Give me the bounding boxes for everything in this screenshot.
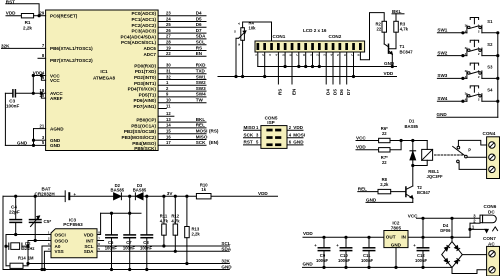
wire OSCI down to crystal xyxy=(5,235,7,266)
wire pin9 / node SW4 xyxy=(158,92,206,97)
IC3 PCF8563 xyxy=(48,217,100,257)
svg-text:PB7(XTAL2/TOSC2): PB7(XTAL2/TOSC2) xyxy=(50,58,93,63)
node SW1 / wire to S1 xyxy=(437,28,467,34)
svg-text:VDD: VDD xyxy=(384,71,394,76)
svg-text:1k: 1k xyxy=(201,187,206,192)
diode D3 BAS85 xyxy=(133,183,147,200)
svg-text:23: 23 xyxy=(166,11,171,16)
resistor R8 xyxy=(378,177,391,194)
svg-text:4,7k: 4,7k xyxy=(400,27,409,32)
wire GND pin3 row xyxy=(34,139,46,141)
wire IC3 INT stub xyxy=(97,240,104,242)
wire OSCO row xyxy=(27,241,29,266)
wire AGND down to GND pins xyxy=(33,129,35,146)
svg-text:BAS85: BAS85 xyxy=(405,124,419,129)
wire pot top to LCD pin3 xyxy=(243,22,272,41)
wire AVCC to AREF bridge xyxy=(41,93,45,98)
wire CON6 pin1 with center-pin arrow xyxy=(470,228,487,230)
IC1 ATMEGA8 body xyxy=(46,10,159,151)
wire AVCC row xyxy=(15,92,45,94)
wire R1 to pin29 xyxy=(34,15,46,17)
capacitor C4 xyxy=(9,195,22,236)
wire pin16 / node MISO xyxy=(158,134,208,139)
wire pin11 xyxy=(158,103,171,108)
wire coil bottom to D1 xyxy=(413,160,427,165)
connector CON7 AC xyxy=(483,236,500,276)
svg-text:EN: EN xyxy=(196,51,203,56)
wire pot wiper down xyxy=(236,38,239,76)
svg-text:C5*: C5* xyxy=(44,219,52,224)
wire CON4 t3 to contact xyxy=(459,163,487,170)
svg-text:GND: GND xyxy=(303,261,314,266)
wire LCD gnd rail xyxy=(258,66,397,68)
wire pin12 xyxy=(158,111,174,116)
wire T2 emitter to gnd xyxy=(412,198,414,202)
wire left rail xyxy=(4,93,6,145)
svg-text:OSCO: OSCO xyxy=(55,238,69,243)
wire LCD pin5 to gnd xyxy=(284,52,286,67)
svg-text:OUT: OUT xyxy=(386,235,396,240)
svg-text:21: 21 xyxy=(40,123,45,128)
wire pin28 / node SCL xyxy=(158,40,206,45)
node BKL xyxy=(392,9,404,14)
wire LCD vdd rail xyxy=(218,76,397,78)
svg-text:SCL: SCL xyxy=(221,241,230,246)
svg-text:100nF: 100nF xyxy=(361,258,374,263)
wire CON4 t1 to contact xyxy=(458,140,486,146)
node VDD / wire vdd rail bottom xyxy=(303,231,384,238)
wire LCD pin10 to gnd xyxy=(318,52,320,67)
svg-text:PB6(XTAL1/TOSC1): PB6(XTAL1/TOSC1) xyxy=(50,46,93,51)
wire switches gnd rail xyxy=(497,33,499,118)
svg-text:12: 12 xyxy=(166,111,171,116)
resistor R6* xyxy=(379,126,390,143)
svg-text:2,2k: 2,2k xyxy=(380,182,389,187)
resistor R1 xyxy=(21,14,33,31)
svg-text:100nF: 100nF xyxy=(6,104,19,109)
battery BAT CR2032H xyxy=(3,187,77,202)
svg-text:PD4(T0/XCK): PD4(T0/XCK) xyxy=(128,87,157,92)
svg-text:GND: GND xyxy=(293,140,304,145)
svg-text:LCD 2 x 16: LCD 2 x 16 xyxy=(303,28,327,33)
wire pin10 / node TW xyxy=(158,98,206,103)
svg-text:VDD: VDD xyxy=(6,11,16,16)
svg-text:ISP: ISP xyxy=(267,120,274,125)
svg-text:REL: REL xyxy=(196,123,205,128)
svg-text:VDD: VDD xyxy=(293,125,303,130)
svg-text:15: 15 xyxy=(166,129,171,134)
svg-text:30: 30 xyxy=(166,63,171,68)
wire pin14 / node REL xyxy=(158,123,206,128)
wire A0 to gnd xyxy=(42,246,51,270)
svg-text:(RS): (RS) xyxy=(209,129,219,134)
wire bridge to CON7 t1 xyxy=(462,254,486,256)
capacitor C9 xyxy=(314,237,329,268)
svg-text:VCC: VCC xyxy=(408,214,418,219)
svg-text:CON7: CON7 xyxy=(483,236,496,241)
wire jack switch lever xyxy=(493,227,498,231)
svg-text:R14: R14 xyxy=(18,255,26,260)
pin numbers CON1 1-8 rotated xyxy=(254,54,361,56)
wire pin19 / node RS xyxy=(158,45,206,50)
svg-text:SW1: SW1 xyxy=(437,28,447,33)
svg-text:S: S xyxy=(234,30,236,34)
capacitor C7 xyxy=(123,213,136,270)
wire CON4 t2 to pivot xyxy=(467,156,486,158)
svg-text:22: 22 xyxy=(382,160,387,165)
svg-text:PD3(INT1): PD3(INT1) xyxy=(134,81,156,86)
wire EN drop / node EN xyxy=(291,52,296,95)
wire pin4 to pin6 bridge xyxy=(41,76,45,81)
wire D6 drop / node D6 xyxy=(339,52,344,95)
transistor T2 BC847 xyxy=(406,185,431,198)
svg-text:VDD: VDD xyxy=(258,191,268,196)
wire C3 left to rail xyxy=(5,92,12,94)
svg-text:CON4: CON4 xyxy=(483,131,496,136)
svg-text:31: 31 xyxy=(166,69,171,74)
wire pin26 / node D7 xyxy=(158,28,206,33)
svg-text:3V: 3V xyxy=(167,191,174,196)
capacitor C6 xyxy=(105,213,118,270)
resistor R10 xyxy=(196,182,211,199)
wire gnd bottom xyxy=(437,116,498,118)
svg-text:PD7(AIN1): PD7(AIN1) xyxy=(134,104,157,109)
ground rail right / node GND xyxy=(303,261,453,267)
svg-text:MOSI: MOSI xyxy=(293,133,305,138)
svg-text:10k: 10k xyxy=(249,26,257,31)
svg-text:SCL: SCL xyxy=(84,244,93,249)
svg-text:19: 19 xyxy=(166,45,171,50)
svg-text:E: E xyxy=(237,43,241,45)
svg-text:PCF8563: PCF8563 xyxy=(63,222,83,227)
bridge rectifier D4 DF06 xyxy=(440,223,462,268)
node SW4 / wire to S4 xyxy=(437,96,467,102)
svg-text:25: 25 xyxy=(166,22,171,27)
node GND / pin 6 xyxy=(287,140,304,145)
node VCC / wire to R6 xyxy=(356,135,379,140)
diode D2 BAS85 xyxy=(111,183,125,200)
svg-text:DF06: DF06 xyxy=(440,228,451,233)
wire VDD to pin4 xyxy=(33,75,45,77)
wire left rail battery minus xyxy=(2,196,4,269)
svg-text:CON6: CON6 xyxy=(484,204,497,209)
wire LCD pin1 to gnd xyxy=(257,52,259,67)
ground rail left / node GND xyxy=(3,265,232,270)
wire pin13 / node BKL xyxy=(158,117,206,122)
svg-text:VCC: VCC xyxy=(50,78,60,83)
wire pin2 down to IN xyxy=(469,223,471,237)
svg-text:SDA: SDA xyxy=(221,246,231,251)
wire 3V node down xyxy=(129,196,131,213)
svg-text:GND: GND xyxy=(391,242,402,247)
svg-text:OSCI: OSCI xyxy=(55,232,66,237)
svg-text:REL: REL xyxy=(358,186,367,191)
svg-text:ADC6: ADC6 xyxy=(143,46,156,51)
wire pin8 stub xyxy=(38,57,46,59)
wire S3 to gnd rail xyxy=(482,77,498,79)
switch S4 xyxy=(465,86,493,102)
capacitor C8 xyxy=(140,196,153,270)
wire R6 to node xyxy=(390,140,427,142)
relay contact xyxy=(453,146,472,162)
wire SDA line / node SDA xyxy=(97,246,232,251)
svg-text:D5: D5 xyxy=(332,89,337,95)
svg-text:PB0(ICP): PB0(ICP) xyxy=(136,118,156,123)
svg-text:PC5(ADC5/SCL): PC5(ADC5/SCL) xyxy=(121,40,156,45)
svg-text:17: 17 xyxy=(166,140,171,145)
wire SCL line / node SCL xyxy=(97,241,231,246)
svg-text:PC0(ADC0): PC0(ADC0) xyxy=(131,11,156,16)
connector CON5 ISP xyxy=(261,116,287,149)
svg-text:SW3: SW3 xyxy=(196,86,206,91)
wire S1 to gnd rail xyxy=(482,32,498,34)
svg-text:S1: S1 xyxy=(487,19,493,24)
svg-text:MISO: MISO xyxy=(196,134,208,139)
svg-text:PB3(MOSI/OC2): PB3(MOSI/OC2) xyxy=(122,135,157,140)
wire R3 to T1 base xyxy=(389,32,397,49)
svg-text:SCL: SCL xyxy=(196,40,205,45)
wire T1 emitter to gnd rail xyxy=(391,54,393,66)
svg-text:AC: AC xyxy=(488,242,495,247)
wire D5 drop / node D5 xyxy=(332,52,337,95)
node SW2 / wire to S2 xyxy=(437,50,467,56)
svg-text:S3: S3 xyxy=(487,65,493,70)
svg-text:SDA: SDA xyxy=(84,249,94,254)
svg-text:IN: IN xyxy=(401,235,406,240)
svg-text:JQC3FF: JQC3FF xyxy=(427,174,443,179)
svg-text:22: 22 xyxy=(166,51,171,56)
svg-text:7805: 7805 xyxy=(391,225,402,230)
wire R8 to T2 base xyxy=(391,191,406,193)
svg-text:GND: GND xyxy=(221,265,232,270)
diode D1 BAS85 xyxy=(405,119,419,166)
connector CON1/CON2 strip xyxy=(255,41,365,52)
wire battery to D2 xyxy=(69,195,113,197)
wire LCD pin9 to gnd xyxy=(312,52,314,67)
wire R7 up to node xyxy=(390,141,401,150)
wire RS drop / node RS xyxy=(278,52,283,95)
svg-text:VSS: VSS xyxy=(55,249,64,254)
wire R10 to VDD / node VDD xyxy=(211,191,278,196)
wire VCC down to IN xyxy=(422,218,424,237)
crystal Q2 32kHz xyxy=(5,241,35,251)
svg-text:1M: 1M xyxy=(28,255,34,260)
svg-text:PD0(RXD): PD0(RXD) xyxy=(134,63,156,68)
svg-text:D5: D5 xyxy=(196,16,202,21)
wire pot bottom to VDD rail xyxy=(242,40,244,76)
svg-text:RXD: RXD xyxy=(196,63,206,68)
wire pin27 / node SDA xyxy=(158,34,206,39)
resistor R12 xyxy=(171,196,180,252)
svg-text:2,2k: 2,2k xyxy=(23,25,32,30)
svg-text:ATMEGA8: ATMEGA8 xyxy=(93,76,116,81)
transistor T1 BC847 xyxy=(384,44,413,54)
node MOSI / pin 4 xyxy=(287,133,305,138)
svg-text:SW4: SW4 xyxy=(437,96,447,101)
svg-text:16: 16 xyxy=(166,134,171,139)
node REL / wire to R8 xyxy=(358,186,378,191)
svg-text:INT: INT xyxy=(86,238,94,243)
svg-text:ADC7: ADC7 xyxy=(143,52,156,57)
svg-text:S4: S4 xyxy=(487,87,493,92)
resistor R3 xyxy=(394,21,409,32)
svg-text:SW2: SW2 xyxy=(437,50,447,55)
wire pin25 / node D6 xyxy=(158,22,206,27)
wire R2 to T1 collector xyxy=(383,32,385,44)
svg-text:S2: S2 xyxy=(487,42,493,47)
resistor R2 xyxy=(376,21,387,32)
svg-text:32K: 32K xyxy=(221,259,230,264)
svg-text:PC2(ADC2): PC2(ADC2) xyxy=(131,23,156,28)
svg-text:PB2(SS/OC1B): PB2(SS/OC1B) xyxy=(124,129,157,134)
svg-text:A0: A0 xyxy=(55,244,61,249)
resistor R11 xyxy=(160,196,169,247)
svg-text:BC847: BC847 xyxy=(400,49,414,54)
resistor R7* xyxy=(379,148,390,165)
svg-text:RS: RS xyxy=(196,45,202,50)
svg-text:100uF: 100uF xyxy=(415,258,428,263)
wire pin30 / node RXD xyxy=(158,63,206,68)
svg-text:10: 10 xyxy=(166,98,171,103)
svg-text:PC6(RESET): PC6(RESET) xyxy=(50,14,78,19)
svg-text:22pF: 22pF xyxy=(9,209,20,214)
capacitor C11 xyxy=(361,237,375,268)
svg-text:BAS85: BAS85 xyxy=(133,188,147,193)
wire coil top xyxy=(426,141,428,150)
svg-text:100uF: 100uF xyxy=(316,258,329,263)
wire 32K line / node 32K xyxy=(27,259,231,265)
wire pin24 / node D5 xyxy=(158,16,206,21)
node RST xyxy=(6,0,39,16)
svg-text:PD5(T1): PD5(T1) xyxy=(139,92,157,97)
wire D3 to R10 / node 3V xyxy=(143,195,196,197)
wire S4 to gnd rail xyxy=(482,100,498,102)
capacitor C5* trimmer xyxy=(30,195,52,242)
wire pin15 / node MOSI (RS) xyxy=(158,129,219,134)
svg-text:SW2: SW2 xyxy=(196,80,206,85)
connector CON6 DC jack xyxy=(472,204,497,229)
svg-text:AGND: AGND xyxy=(50,126,64,131)
svg-text:SDA: SDA xyxy=(196,34,206,39)
wire pin31 / node TXD xyxy=(158,69,206,74)
svg-text:EN: EN xyxy=(291,88,296,95)
node SW3 / wire to S3 xyxy=(437,73,467,79)
wire pin32 / node SW1 xyxy=(158,74,206,79)
svg-text:SCK: SCK xyxy=(244,133,254,138)
svg-text:SW3: SW3 xyxy=(437,73,447,78)
wire 32K to pin7 xyxy=(2,47,46,49)
wire IC2 gnd pin xyxy=(395,248,397,268)
svg-text:PC4(ADC4/SDA): PC4(ADC4/SDA) xyxy=(121,34,157,39)
svg-text:BAS85: BAS85 xyxy=(111,188,125,193)
wire IC3 VDD pin up to 3V rail xyxy=(97,213,101,234)
svg-text:20: 20 xyxy=(40,93,45,98)
svg-text:11: 11 xyxy=(166,103,171,108)
wire pin22 / node EN xyxy=(158,51,206,56)
switch S3 xyxy=(465,63,493,79)
wire CON6 pin2 xyxy=(470,222,480,224)
wire pin1 / node SW2 xyxy=(158,80,206,85)
svg-text:GND: GND xyxy=(437,112,448,117)
svg-text:CON1: CON1 xyxy=(273,34,286,39)
wire S2 to gnd rail xyxy=(482,55,498,57)
svg-text:(EN): (EN) xyxy=(209,140,219,145)
node junction R1/RST xyxy=(38,15,40,17)
potentiometer R4 xyxy=(234,21,256,46)
wire LCD pin15 to vdd xyxy=(353,52,355,77)
node VCC / wire vcc line xyxy=(408,214,480,220)
svg-text:22: 22 xyxy=(377,27,382,32)
svg-text:PB1(OC1A): PB1(OC1A) xyxy=(131,123,156,128)
svg-text:MISO: MISO xyxy=(244,125,256,130)
wire GND pin5 row xyxy=(5,144,45,146)
svg-text:SW1: SW1 xyxy=(196,74,206,79)
wire CON7 t2 to bridge bottom xyxy=(452,268,487,274)
svg-text:VDD: VDD xyxy=(356,145,366,150)
wire D7 drop / node D7 xyxy=(346,52,351,95)
svg-text:D7: D7 xyxy=(346,89,351,95)
wire OSCI row xyxy=(6,234,51,236)
svg-text:22: 22 xyxy=(382,131,387,136)
relay REL1 coil xyxy=(422,149,443,179)
svg-text:VDD: VDD xyxy=(303,231,313,236)
svg-text:14: 14 xyxy=(166,123,171,128)
switch S1 xyxy=(465,18,493,34)
capacitor C12 xyxy=(413,237,428,268)
svg-text:IC1: IC1 xyxy=(100,69,108,74)
switch S2 xyxy=(465,40,493,56)
wire 3V rail2 xyxy=(101,212,141,214)
wire VCC line down to bridge xyxy=(451,218,453,241)
svg-text:GND: GND xyxy=(366,198,377,203)
node RST / pin 5 xyxy=(244,140,261,145)
node VDD / pin 2 xyxy=(287,125,304,130)
wire pin23 / node D4 xyxy=(158,11,206,16)
resistor R13 xyxy=(185,196,201,264)
svg-text:27: 27 xyxy=(166,34,171,39)
svg-text:28: 28 xyxy=(166,40,171,45)
svg-text:SW4: SW4 xyxy=(196,92,206,97)
svg-text:RST: RST xyxy=(244,140,253,145)
node SCK / pin 3 xyxy=(244,133,261,138)
wire pin17 / node SCK (EN) xyxy=(158,140,219,145)
wire LCD pin7 to gnd xyxy=(298,52,300,67)
wire T2 collector to D1 node xyxy=(412,166,414,187)
svg-text:CON2: CON2 xyxy=(329,34,342,39)
svg-text:TXD: TXD xyxy=(196,69,206,74)
svg-text:PB4(MISO): PB4(MISO) xyxy=(132,141,156,146)
svg-text:GND: GND xyxy=(50,143,61,148)
svg-text:P: P xyxy=(468,148,471,153)
wire D4 drop / node D4 xyxy=(326,52,331,95)
svg-text:VCC: VCC xyxy=(356,135,366,140)
wire pin2 / node SW3 xyxy=(158,86,206,91)
wire AGND row xyxy=(34,128,46,130)
wire D2 to D3 / node 3V junction xyxy=(121,195,135,197)
svg-text:PD1(TXD): PD1(TXD) xyxy=(135,69,157,74)
svg-text:TW: TW xyxy=(196,98,204,103)
svg-text:PD2(INT0): PD2(INT0) xyxy=(134,75,156,80)
svg-text:24: 24 xyxy=(166,16,171,21)
svg-text:D4: D4 xyxy=(196,11,202,16)
wire BKL to R3 xyxy=(395,14,397,21)
node VDD / wire to R7 xyxy=(356,145,379,150)
svg-text:D6: D6 xyxy=(196,22,202,27)
svg-text:PD6(AIN0): PD6(AIN0) xyxy=(134,98,157,103)
svg-text:D7: D7 xyxy=(196,28,202,33)
wire LCD pin16 up to R2 xyxy=(360,13,384,60)
capacitor C10 xyxy=(336,237,351,268)
